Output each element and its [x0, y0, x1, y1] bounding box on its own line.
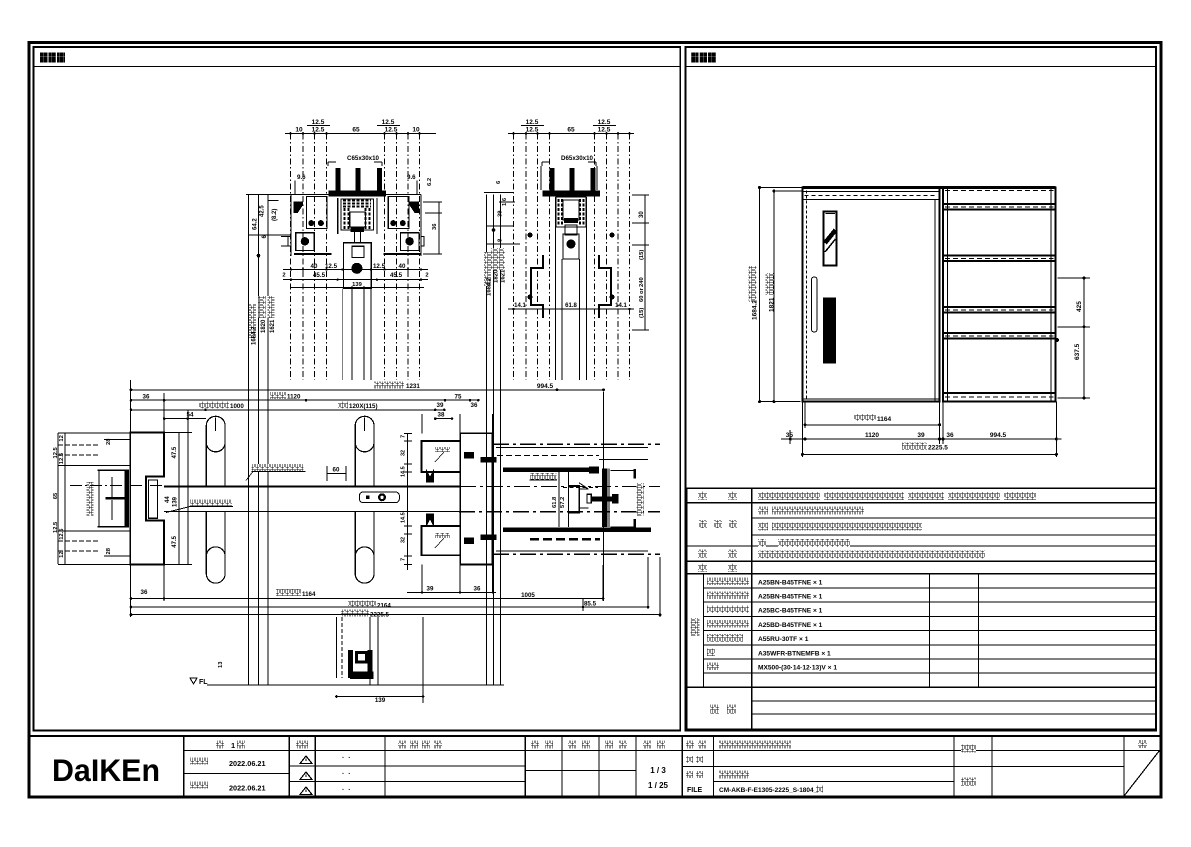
- svg-text:39: 39: [427, 586, 434, 593]
- svg-text:2: 2: [282, 273, 285, 279]
- svg-text:12.5: 12.5: [526, 119, 539, 126]
- svg-text:35: 35: [786, 432, 794, 439]
- svg-text:2164: 2164: [377, 603, 391, 610]
- svg-text:FL: FL: [199, 679, 208, 686]
- svg-text:637.5: 637.5: [1074, 343, 1081, 360]
- svg-text:47.5: 47.5: [172, 446, 178, 458]
- svg-text:30: 30: [639, 211, 645, 218]
- svg-text:85.5: 85.5: [584, 601, 597, 608]
- svg-text:994.5: 994.5: [537, 383, 554, 390]
- svg-text:7: 7: [401, 435, 407, 438]
- svg-text:44: 44: [165, 496, 171, 503]
- svg-text:1005: 1005: [521, 592, 535, 599]
- svg-text:A35WFR-BTNEMFB × 1: A35WFR-BTNEMFB × 1: [758, 650, 831, 657]
- svg-text:32: 32: [401, 537, 407, 543]
- svg-text:60: 60: [333, 467, 340, 474]
- svg-text:7: 7: [401, 558, 407, 561]
- svg-text:1684.2: 1684.2: [251, 326, 257, 345]
- svg-text:9.6: 9.6: [407, 174, 416, 181]
- svg-text:(15): (15): [639, 308, 645, 318]
- svg-text:12.5: 12.5: [382, 119, 395, 126]
- svg-text:FILE: FILE: [687, 787, 702, 794]
- svg-text:10: 10: [295, 127, 303, 134]
- svg-text:2225.5: 2225.5: [928, 445, 948, 452]
- svg-text:1: 1: [231, 741, 235, 750]
- svg-text:12.5: 12.5: [312, 119, 325, 126]
- svg-text:57.2: 57.2: [560, 497, 566, 508]
- svg-text:12.5: 12.5: [59, 528, 65, 540]
- svg-text:240: 240: [639, 277, 645, 287]
- svg-text:14.1: 14.1: [615, 303, 627, 309]
- svg-text:12.5: 12.5: [59, 452, 65, 464]
- svg-text:12.5: 12.5: [598, 127, 611, 134]
- svg-text:1621: 1621: [270, 319, 276, 333]
- svg-text:425: 425: [1076, 301, 1083, 312]
- svg-text:39: 39: [437, 402, 444, 409]
- svg-text:64.2: 64.2: [252, 218, 258, 230]
- svg-text:36: 36: [143, 394, 150, 401]
- svg-text:38: 38: [438, 412, 445, 419]
- svg-text:1684.2: 1684.2: [752, 300, 759, 320]
- svg-text:28: 28: [106, 547, 112, 554]
- svg-text:60 or: 60 or: [639, 287, 645, 302]
- svg-text:40: 40: [399, 263, 406, 270]
- svg-text:· ·: · ·: [342, 787, 351, 794]
- svg-text:1 / 25: 1 / 25: [648, 781, 669, 790]
- svg-text:1 / 3: 1 / 3: [650, 766, 666, 775]
- svg-text:1164: 1164: [877, 416, 891, 423]
- svg-text:65: 65: [567, 127, 575, 134]
- svg-text:994.5: 994.5: [990, 432, 1007, 439]
- svg-text:75: 75: [455, 394, 462, 401]
- svg-text:36: 36: [946, 432, 954, 439]
- svg-text:36: 36: [471, 402, 478, 409]
- svg-text:45.5: 45.5: [390, 272, 403, 279]
- svg-text:1821: 1821: [769, 297, 776, 312]
- svg-text:61.8: 61.8: [565, 303, 577, 309]
- svg-text:(8.2): (8.2): [272, 209, 278, 221]
- svg-text:A25BN-B45TFNE × 1: A25BN-B45TFNE × 1: [758, 594, 823, 601]
- svg-text:1000: 1000: [230, 403, 244, 410]
- svg-text:12.5: 12.5: [312, 127, 325, 134]
- svg-text:36: 36: [432, 223, 438, 230]
- svg-text:65: 65: [352, 127, 360, 134]
- svg-text:2022.06.21: 2022.06.21: [229, 759, 266, 768]
- svg-text:61.8: 61.8: [552, 496, 558, 508]
- svg-text:12: 12: [59, 435, 65, 441]
- svg-text:1164: 1164: [302, 591, 316, 598]
- svg-text:A55RU-30TF × 1: A55RU-30TF × 1: [758, 636, 809, 643]
- svg-text:2022.06.21: 2022.06.21: [229, 784, 266, 793]
- svg-text:36: 36: [474, 586, 481, 593]
- svg-text:6.2: 6.2: [427, 178, 433, 186]
- svg-text:40: 40: [311, 263, 318, 270]
- svg-text:39: 39: [917, 432, 925, 439]
- svg-text:42.5: 42.5: [260, 205, 266, 217]
- svg-text:C65x30x10: C65x30x10: [347, 155, 380, 162]
- svg-text:1621: 1621: [500, 269, 506, 283]
- svg-text:A25BD-B45TFNE × 1: A25BD-B45TFNE × 1: [758, 622, 823, 629]
- svg-text:DaIKEn: DaIKEn: [52, 753, 160, 789]
- svg-text:1231: 1231: [406, 383, 420, 390]
- svg-text:· ·: · ·: [342, 755, 351, 762]
- svg-text:A25BC-B45TFNE × 1: A25BC-B45TFNE × 1: [758, 608, 823, 615]
- svg-text:139: 139: [375, 697, 386, 704]
- svg-text:1120: 1120: [865, 432, 879, 439]
- svg-text:2: 2: [425, 273, 428, 279]
- svg-text:36: 36: [141, 589, 148, 596]
- svg-text:32: 32: [401, 450, 407, 456]
- svg-text:12: 12: [59, 551, 65, 557]
- svg-text:1820: 1820: [493, 269, 499, 283]
- svg-text:13: 13: [218, 661, 224, 668]
- svg-text:14.1: 14.1: [514, 303, 526, 309]
- svg-text:12.5: 12.5: [598, 119, 611, 126]
- svg-text:45.5: 45.5: [313, 272, 326, 279]
- svg-text:(15): (15): [639, 250, 645, 260]
- svg-text:1684.2: 1684.2: [486, 277, 492, 296]
- svg-text:CM-AKB-F-E1305-2225_S-1804_2-: CM-AKB-F-E1305-2225_S-1804_2-: [719, 787, 823, 794]
- svg-text:· ·: · ·: [342, 771, 351, 778]
- svg-text:1820: 1820: [261, 319, 267, 333]
- svg-text:D65x30x10: D65x30x10: [561, 155, 594, 162]
- svg-text:39: 39: [498, 210, 504, 217]
- svg-text:9.6: 9.6: [297, 174, 306, 181]
- svg-text:139: 139: [173, 496, 179, 507]
- svg-text:A25BN-B45TFNE × 1: A25BN-B45TFNE × 1: [758, 579, 823, 586]
- svg-text:MX500-(30·14·12·13)V × 1: MX500-(30·14·12·13)V × 1: [758, 665, 837, 672]
- svg-text:120X(115): 120X(115): [349, 403, 378, 410]
- svg-text:1120: 1120: [287, 394, 301, 401]
- svg-text:14.5: 14.5: [401, 512, 407, 523]
- svg-text:47.5: 47.5: [172, 535, 178, 547]
